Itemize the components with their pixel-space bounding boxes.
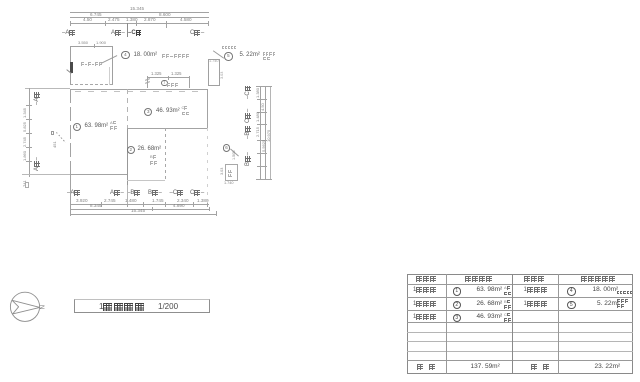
left bottom rotated dim 741 [23, 180, 27, 187]
row2 label 1F part [413, 301, 437, 317]
rotated dim left of small shed [221, 168, 225, 175]
dim text 15.345 top [130, 7, 144, 12]
compass circle [10, 292, 39, 321]
third top dimension line [70, 23, 209, 24]
row3 value 46.93 [477, 314, 503, 321]
grid label -A(tou) left [62, 30, 76, 36]
header non-residential part [581, 276, 616, 292]
small shed bottom dim 1.740 [224, 182, 234, 186]
row1 value 63.98 [477, 287, 503, 294]
area value 63.98 [85, 123, 109, 129]
bottom dim line 1 [70, 204, 209, 205]
dim text 6.745 [90, 13, 102, 18]
bottom line1 ticks [70, 202, 71, 207]
carport katakana label [81, 62, 103, 78]
row2 value 26.68 [477, 301, 503, 308]
table horizontal line r7 [407, 351, 634, 352]
B grid wall vertical [127, 89, 128, 128]
plan top edge [70, 89, 207, 90]
header residential part [465, 276, 493, 292]
tick on carport top [94, 44, 95, 48]
rotated dim 2.715 [256, 127, 260, 137]
right dim line 2 [265, 86, 266, 179]
terrace katakana [167, 83, 179, 99]
circled number 3 [144, 108, 152, 116]
plan bottom edge (A block) [70, 174, 127, 175]
bottom dim line 3 [70, 214, 216, 215]
second top dimension line [70, 17, 209, 18]
divider between area 3 and area 2 [127, 128, 208, 129]
rotated grid label B(tou) third [245, 125, 251, 139]
carport top dim 1.900 [96, 41, 106, 45]
plan top extension line left [25, 88, 70, 89]
bottom B grid connector [127, 185, 128, 204]
rotated dim 1.505 on leader [233, 150, 237, 160]
tiny note A block two lines [110, 121, 117, 137]
door small arrow [66, 69, 71, 73]
dim 1.325 right [171, 72, 181, 76]
table outer border [407, 274, 634, 374]
circled number 6 [223, 144, 231, 152]
header floor-area left [416, 276, 437, 292]
area 2 bottom edge [127, 180, 165, 181]
overall top dimension line 15.345 [70, 12, 209, 13]
right strip mid ticks [257, 99, 267, 100]
row3 label 1F part [413, 314, 437, 330]
table horizontal line r8 [407, 360, 634, 361]
table vertical col3 [558, 274, 559, 374]
terrace dim line [147, 77, 189, 78]
table horizontal line r4 [407, 322, 634, 323]
area value 26.68 [138, 146, 162, 152]
plan top dashed boundary [75, 91, 205, 92]
row3 tiny note C [504, 313, 511, 329]
shed right rotated dim 3.03 [221, 72, 225, 79]
north arrow circle and dart [8, 290, 52, 326]
entrance dotted leader [56, 132, 66, 143]
steel shed rectangle [208, 59, 221, 86]
break marks [144, 78, 149, 81]
dim text 2.870 [144, 18, 156, 23]
row1 circled 4 [567, 287, 576, 296]
right dim line 1 [260, 86, 261, 179]
row1 value 18.00 [593, 287, 619, 294]
rotated dim 1.380 [256, 88, 260, 98]
bottom grid label -A(tou) [67, 190, 81, 196]
total row label right [531, 364, 550, 380]
tiny note B block two lines [150, 155, 157, 171]
rotated grid label A(tou) lower left [34, 157, 40, 171]
bottom dim line 2 [70, 209, 209, 210]
terrace right drop line [189, 77, 190, 88]
circled number 2 [127, 146, 135, 154]
bottom grid label C(tou)- [190, 190, 204, 196]
rotated storage label inside [228, 169, 244, 177]
row1 circled 1 [453, 287, 462, 296]
circled number 4 [121, 51, 130, 60]
area value 46.93 [156, 108, 180, 114]
bottom C grid dashed connector [207, 128, 208, 204]
right dim line 3 [270, 86, 271, 179]
total value 23.22 [595, 364, 621, 371]
entrance marker square [51, 131, 54, 134]
grid label -C(tou) bold [128, 30, 142, 36]
left dim ticks [26, 105, 32, 106]
row2 right label 1F part [524, 301, 548, 317]
tiny note C block two lines [182, 106, 189, 122]
shed top dim 1.740 [209, 60, 219, 64]
compass dart [12, 300, 40, 314]
dim text 1.380 [126, 18, 138, 23]
tiny note steel shed two lines [263, 52, 276, 68]
row2 circled 5 [567, 301, 576, 310]
right strip bottom tick [256, 179, 272, 180]
dim 1.325 left [151, 72, 161, 76]
rotated dim 4.50 [261, 103, 265, 111]
row2 value 5.22 [597, 301, 619, 308]
bottom grid label A(tou)- [110, 190, 124, 196]
row2 tiny note B [504, 300, 511, 316]
left rotated dims [23, 108, 27, 118]
tick marks on third line [70, 21, 71, 26]
table horizontal line r2 [407, 297, 634, 298]
rotated grid label C(tou) second [245, 109, 251, 123]
left dim line [29, 88, 30, 177]
total row label left [417, 364, 436, 380]
rotated grid label C(tou) upper [245, 85, 251, 99]
faint inner vertical [109, 67, 110, 85]
rotated grid label B(tou) fourth [245, 152, 251, 166]
svg-text:N: N [38, 305, 44, 309]
terrace ticks [147, 76, 148, 80]
row3 circled 3 [453, 314, 462, 323]
rotated grid label A(tou) upper left [34, 91, 40, 105]
B grid wall lower solid [127, 128, 128, 185]
tiny note (carport) [162, 54, 190, 70]
bottom grid label -B(tou) [127, 190, 141, 196]
dim text 4.50 [83, 18, 92, 23]
table horizontal line r5 [407, 332, 634, 333]
header floor-area right [524, 276, 545, 292]
bottom left connector [70, 174, 71, 216]
title box [74, 299, 210, 313]
table vertical col2 (between tables) [512, 274, 513, 374]
table vertical col1 [446, 274, 447, 374]
small shed rectangle [225, 164, 238, 181]
rotated dim 10.975 [267, 130, 271, 142]
leader diagonal [230, 148, 239, 156]
bottom grid label -C(tou) [170, 190, 184, 196]
table horizontal line r1 [407, 284, 634, 285]
row1 tiny note A [504, 286, 511, 302]
plan bottom extension line left [22, 174, 70, 175]
bottom grid label B(tou)- [148, 190, 162, 196]
carport rectangle [70, 46, 113, 86]
table horizontal line r3 [407, 310, 634, 311]
carport top dim 3.550 [78, 41, 88, 45]
row2 circled 2 [453, 301, 462, 310]
circled terrace number [161, 80, 168, 87]
title text 1-kai kyuusekizu [99, 303, 145, 312]
entrance rotated number 451 [53, 141, 57, 148]
left bottom tiny box [25, 182, 30, 188]
table horizontal line r6 [407, 341, 634, 342]
title scale 1/200 [158, 303, 178, 311]
rotated dim 1.480 [256, 112, 260, 122]
plan right edge (C block) [207, 89, 208, 129]
dim text 2.475 [108, 18, 120, 23]
leader from note to shed [213, 50, 224, 58]
row2 tiny steel shed note [617, 299, 629, 315]
C grid line vertical [127, 23, 128, 37]
leader from carport label to area label [101, 55, 118, 64]
circled number 1 [73, 123, 81, 131]
rotated dim 5.5625 [262, 140, 266, 152]
bottom overall dim 15.345 [131, 209, 145, 214]
bottom line2 ticks [152, 207, 153, 211]
dim text 8.600 [159, 13, 171, 18]
row1 label 1F part [413, 287, 437, 303]
grid label A(tou)- [111, 30, 125, 36]
area value 5.22 [240, 52, 260, 58]
row1 tiny carport note [617, 291, 633, 307]
dim text 4.580 [180, 18, 192, 23]
plan left edge [70, 89, 71, 175]
steel shed note katakana [222, 46, 238, 62]
bottom line2 dims [90, 204, 102, 209]
area value 18.00 [134, 52, 158, 58]
terrace left drop line [147, 77, 148, 88]
row1 right label 1F part [524, 287, 548, 303]
circled number 5 [224, 52, 233, 61]
right end connector [209, 207, 210, 211]
total value 137.59 [471, 364, 500, 371]
area 2 right dashed boundary [165, 128, 166, 181]
door black mark on carport left edge [70, 62, 74, 73]
grid label C(tou)- right [190, 30, 204, 36]
right strip top tick [256, 86, 272, 87]
bottom line1 dims [76, 199, 88, 204]
